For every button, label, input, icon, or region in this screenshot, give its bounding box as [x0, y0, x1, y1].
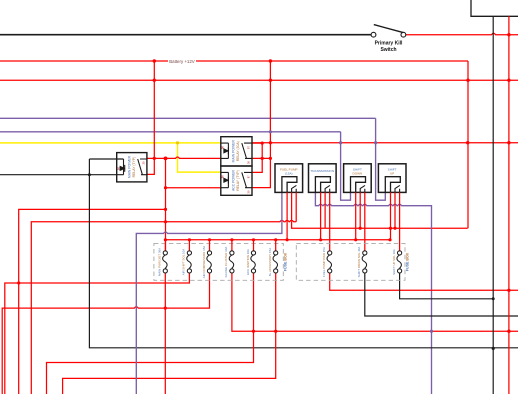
- junction (270.4,158.4): [269, 157, 272, 160]
- junction (493.2,348.4): [492, 347, 495, 350]
- junction (270.4,142.7): [269, 141, 272, 144]
- fuse F6: [273, 251, 278, 273]
- wire red fuse3 out (hop over purple): [2, 273, 209, 394]
- fuse F7: [327, 251, 332, 273]
- wire red fuse5 out: [47, 273, 254, 394]
- wire black ground bus y347.8: [89, 159, 518, 348]
- wire red y228.2 bus: [292, 222, 468, 228]
- wire red fuse4 out: [232, 273, 518, 331]
- junction (262.2,158.4): [261, 157, 264, 160]
- junction (320.6,239.8): [319, 238, 322, 241]
- wire D.p4 to fuse F9: [399, 192, 401, 250]
- wire black coil feed (upper): [89, 158, 123, 160]
- junction (467.7,142.7): [466, 141, 469, 144]
- wire red switched +12 y142.7: [252, 142, 518, 144]
- junction (165.4,239.8): [164, 238, 167, 241]
- svg-text:RELAY (30A): RELAY (30A): [236, 141, 240, 161]
- svg-text:GAUGE CLUSTER 10A: GAUGE CLUSTER 10A: [224, 247, 228, 278]
- junction (508.9,34.7): [507, 33, 510, 36]
- node yellow junction: [176, 141, 179, 144]
- fuse F2: [187, 251, 192, 273]
- svg-text:FUSE BOX: FUSE BOX: [284, 252, 288, 271]
- wire red K2 out stubs x262.2: [252, 143, 270, 172]
- wire purple U to box C: [341, 132, 351, 200]
- svg-text:SHIFT DOWN SOL 10A: SHIFT DOWN SOL 10A: [357, 247, 361, 278]
- wire B.p4 to fuse F7: [329, 192, 331, 250]
- junction (431.5,331.2): [430, 330, 433, 333]
- fuse F3: [207, 251, 212, 273]
- junction (508.9,290.3): [507, 289, 510, 292]
- svg-text:Battery +12V: Battery +12V: [169, 59, 195, 64]
- wire black top-right box: [471, 0, 518, 16]
- fuse F4: [229, 251, 234, 273]
- relay K1 (main power relay): [117, 153, 147, 182]
- wire A.p4 to y221.8: [295, 192, 297, 221]
- junction (253.5,331.2): [252, 330, 255, 333]
- wire kill-switch feed (black): [0, 34, 371, 36]
- switch box SHIFT DOWN: [344, 164, 372, 193]
- wire black fuse8 out: [365, 273, 518, 316]
- wire purple y205.7 with hops: [315, 192, 431, 394]
- fuse F1: [163, 251, 168, 273]
- svg-text:AIR SHIFT SOL 10A: AIR SHIFT SOL 10A: [182, 249, 186, 275]
- fuse labels (rotated): [157, 246, 396, 279]
- wire C.p2 to rail: [355, 192, 357, 239]
- junction (154.3,80.2): [153, 79, 156, 82]
- switch box FUEL PUMP: [275, 164, 303, 193]
- junction (375.6,142.7): [374, 141, 377, 144]
- junction (165.5,187.7): [164, 186, 167, 189]
- wire battery rail 2: [0, 79, 518, 81]
- svg-text:Switch: Switch: [380, 47, 396, 53]
- junction (270.4,61): [269, 59, 272, 62]
- junction (468,80.2): [466, 79, 469, 82]
- junction (165.3,308.1): [164, 307, 167, 310]
- svg-text:FUSE BOX: FUSE BOX: [406, 252, 410, 271]
- wire red fuse6 out: [63, 273, 276, 394]
- wire red K1 to K2 (with hop over yellow): [147, 157, 221, 158]
- junction (165.5,209.4): [164, 208, 167, 211]
- wire red fuse7 out: [330, 273, 518, 290]
- junction (355.7,239.8): [354, 238, 357, 241]
- wire C.p4 to fuse F8: [364, 192, 366, 250]
- junction (508.9,80.2): [507, 79, 510, 82]
- wire A.p3 to y228: [291, 192, 293, 221]
- svg-text:Primary Kill: Primary Kill: [375, 40, 403, 46]
- wire red drop x165.5 to fuse F1: [165, 158, 167, 250]
- wire red left branch y209: [19, 209, 166, 394]
- wire red drop x154.3: [147, 61, 154, 174]
- wire red drop x270.4: [252, 61, 270, 188]
- svg-text:RELAY (TYP): RELAY (TYP): [132, 157, 136, 178]
- switch box TRANSMISSION: [309, 164, 337, 193]
- svg-text:(15A): (15A): [285, 172, 293, 176]
- junction (390.5,228.2): [389, 227, 392, 230]
- junction (189.4,239.8): [188, 238, 191, 241]
- junction (508.9,331.2): [507, 330, 510, 333]
- relay K2: [221, 137, 252, 166]
- junction (165.5,221.8): [164, 220, 167, 223]
- wire red fuse rail y239.8: [165, 239, 390, 241]
- wire purple U to box D: [376, 118, 386, 200]
- junction (253.5,239.8): [252, 238, 255, 241]
- wire B.p3 to y228: [324, 192, 326, 228]
- fuse F5: [251, 251, 256, 273]
- svg-text:DOWN: DOWN: [353, 172, 363, 176]
- junction (390,239.8): [388, 238, 391, 241]
- wire red left branch y221.8 with hops: [31, 220, 296, 394]
- junction (270.4,80.2): [269, 79, 272, 82]
- wire purple trigger 2: [0, 131, 341, 133]
- wire purple drop x136.3: [136, 192, 282, 394]
- wire red fuse2 out: [5, 273, 190, 394]
- fuse F8: [362, 251, 367, 273]
- junction (209.5,239.8): [208, 238, 211, 241]
- svg-text:30: 30: [142, 161, 146, 165]
- svg-text:MAIN PWR DIST 30A: MAIN PWR DIST 30A: [157, 248, 161, 276]
- wire D.p2 to rail end: [390, 192, 392, 239]
- junction (18.7,283): [17, 281, 20, 284]
- junction (154.3,61): [153, 59, 156, 62]
- fuse top feed stubs box1: [165, 240, 275, 251]
- switch box SHIFT UP: [378, 164, 406, 193]
- wire C.p3 to y228: [359, 192, 361, 228]
- switch Primary Kill Switch: [371, 25, 406, 53]
- junction (165.5,158.4): [164, 157, 168, 161]
- fuse F9: [397, 251, 402, 273]
- wire black fuse9 out: [400, 273, 494, 299]
- junction (287.1,239.8): [286, 238, 289, 241]
- svg-text:SHIFT UP SOL 10A: SHIFT UP SOL 10A: [392, 249, 396, 275]
- svg-text:RELAY (TYP): RELAY (TYP): [236, 170, 240, 191]
- pin labels K2/K3: [221, 146, 251, 194]
- svg-text:FUEL PUMP PWR 15A: FUEL PUMP PWR 15A: [322, 247, 326, 277]
- svg-text:86: 86: [117, 167, 121, 171]
- svg-text:TRANSMISSION: TRANSMISSION: [311, 169, 335, 173]
- wire red fuse1 lower: [164, 273, 166, 394]
- junction (395,228.2): [393, 227, 396, 230]
- fuse box 1 (dashed): [154, 243, 283, 280]
- wire D.p3 to y228: [394, 192, 396, 228]
- junction (360.2,228.2): [359, 227, 362, 230]
- wire black main vertical x493.2: [492, 16, 494, 394]
- junction (231.9,239.8): [230, 238, 233, 241]
- wire yellow branch to relay K3: [178, 143, 221, 172]
- junction (154.3,158.4): [153, 157, 156, 160]
- switch box pin drops: [287, 192, 400, 250]
- wire red main vertical x508.9: [508, 16, 510, 394]
- svg-text:AIR COMPRESSOR 15A: AIR COMPRESSOR 15A: [202, 246, 206, 279]
- wire B.p2 to rail: [320, 192, 322, 239]
- wire red right loop x468: [467, 61, 469, 228]
- svg-text:UP: UP: [390, 172, 394, 176]
- wire battery +12V bus: [0, 60, 168, 62]
- junction (493.2,298.8): [492, 297, 495, 300]
- wire A.p2 to rail: [286, 192, 288, 239]
- wire red kill-switch out (hop over black): [406, 33, 518, 34]
- junction (275.7,239.8): [274, 238, 277, 241]
- svg-text:B+ ACCESSORY 15A: B+ ACCESSORY 15A: [268, 248, 272, 276]
- junction (340.6,142.7): [339, 141, 342, 144]
- junction (508.9,142.7): [507, 141, 510, 144]
- wire purple trigger 1: [0, 117, 376, 119]
- wire black coil return (lower): [0, 174, 124, 176]
- junction (275.7,331.2): [274, 330, 277, 333]
- relay K3: [221, 166, 252, 195]
- wire red K3 feed stub: [166, 187, 221, 189]
- junction (89.4,174.7): [88, 173, 91, 176]
- fuse box 2 (dashed): [296, 243, 405, 280]
- junction (270.4,131.8): [269, 130, 272, 133]
- wire yellow coil feed: [0, 142, 221, 144]
- svg-text:ECU IGNITION 10A: ECU IGNITION 10A: [246, 249, 250, 275]
- junction (262.2,143.1): [261, 142, 264, 145]
